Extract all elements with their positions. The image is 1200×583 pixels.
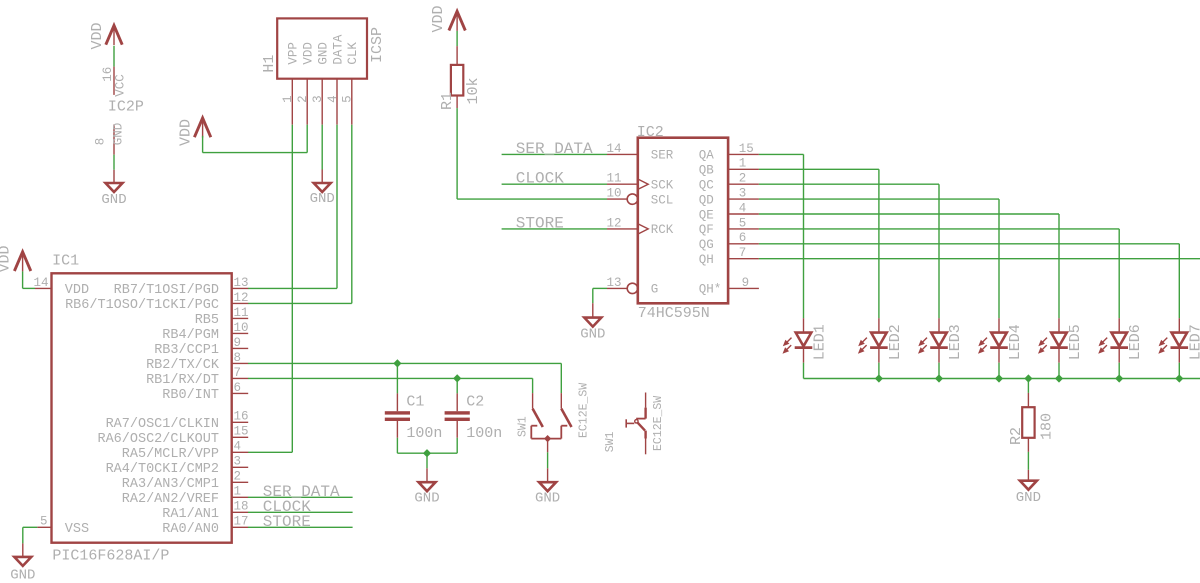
IC2 pin 10 stub bbox=[607, 198, 627, 200]
svg-text:STORE: STORE bbox=[263, 513, 311, 531]
wire bbox=[396, 438, 398, 453]
wire cathode bus bbox=[804, 378, 1200, 380]
LED2 anode stub bbox=[878, 318, 880, 332]
svg-text:RA4/T0CKI/CMP2: RA4/T0CKI/CMP2 bbox=[106, 462, 219, 477]
power symbol VDD (IC1 pin 14) bbox=[0, 245, 31, 272]
IC2 pin 13 inversion circle bbox=[627, 283, 637, 293]
wire bbox=[456, 378, 458, 393]
svg-text:GND: GND bbox=[310, 191, 335, 207]
svg-text:RB3/CCP1: RB3/CCP1 bbox=[154, 343, 219, 358]
IC1 pin 9 stub bbox=[232, 347, 249, 349]
svg-text:18: 18 bbox=[234, 500, 249, 514]
capacitor C2 stub bottom bbox=[456, 421, 458, 438]
junction bbox=[935, 374, 943, 382]
wire bbox=[1027, 452, 1029, 470]
svg-text:9: 9 bbox=[742, 276, 750, 290]
IC1 pin 17 stub bbox=[232, 526, 249, 528]
svg-text:6: 6 bbox=[739, 231, 747, 245]
svg-text:10k: 10k bbox=[465, 77, 482, 104]
wire RB1 to SW/C2 bbox=[248, 377, 533, 379]
svg-text:12: 12 bbox=[234, 291, 249, 305]
svg-text:1: 1 bbox=[281, 95, 295, 103]
wire QA vertical bbox=[803, 154, 805, 318]
svg-text:12: 12 bbox=[606, 216, 621, 230]
svg-text:3: 3 bbox=[311, 95, 325, 103]
LED LED6 bbox=[1098, 333, 1128, 354]
wire bbox=[321, 125, 323, 170]
resistor R1 stub top bbox=[456, 46, 458, 65]
svg-text:R1: R1 bbox=[439, 92, 456, 110]
svg-text:2: 2 bbox=[739, 172, 747, 186]
svg-text:R2: R2 bbox=[1008, 427, 1025, 445]
svg-text:VDD: VDD bbox=[178, 119, 195, 146]
wire QE vertical bbox=[1058, 214, 1060, 318]
svg-text:RB1/RX/DT: RB1/RX/DT bbox=[146, 373, 219, 388]
wire QC vertical bbox=[938, 184, 940, 318]
svg-text:180: 180 bbox=[1038, 413, 1055, 440]
IC2 pin 12 clock mark bbox=[638, 224, 648, 234]
svg-text:100n: 100n bbox=[466, 425, 502, 442]
svg-text:16: 16 bbox=[234, 410, 249, 424]
wire QC horizontal bbox=[759, 183, 939, 185]
svg-text:H1: H1 bbox=[261, 55, 278, 73]
junction bbox=[423, 449, 431, 457]
svg-text:PIC16F628AI/P: PIC16F628AI/P bbox=[52, 548, 169, 565]
wire STORE (IC2) bbox=[502, 228, 607, 230]
ground (IC2P) bbox=[101, 183, 126, 208]
svg-text:QD: QD bbox=[699, 193, 714, 207]
svg-text:7: 7 bbox=[739, 246, 747, 260]
wire bbox=[593, 287, 607, 289]
connector H1 body bbox=[277, 18, 367, 78]
svg-text:GND: GND bbox=[580, 326, 605, 342]
wire bbox=[1118, 363, 1120, 379]
svg-text:GND: GND bbox=[535, 490, 560, 506]
svg-text:8: 8 bbox=[234, 351, 242, 365]
IC1 pin 5 stub bbox=[37, 526, 51, 528]
wire bbox=[592, 303, 594, 317]
IC1 pin 6 stub bbox=[232, 392, 249, 394]
wire bbox=[396, 363, 398, 393]
IC2 pin 15 stub bbox=[728, 153, 759, 155]
IC2 pin 11 clock mark bbox=[638, 179, 648, 189]
svg-text:RB2/TX/CK: RB2/TX/CK bbox=[146, 358, 220, 373]
svg-text:2: 2 bbox=[234, 470, 242, 484]
svg-text:GND: GND bbox=[1016, 490, 1041, 506]
svg-text:3: 3 bbox=[739, 187, 747, 201]
wire bbox=[113, 155, 115, 170]
svg-text:LED3: LED3 bbox=[947, 324, 964, 360]
svg-text:EC12E_SW: EC12E_SW bbox=[652, 396, 665, 451]
junction bbox=[1024, 374, 1032, 382]
wire QG vertical bbox=[1178, 244, 1180, 318]
IC2P pin 8 GND stub bbox=[113, 125, 115, 155]
wire VPP horizontal bbox=[248, 451, 292, 453]
svg-text:VPP: VPP bbox=[287, 42, 301, 65]
LED3 cathode stub bbox=[938, 349, 940, 363]
svg-text:4: 4 bbox=[739, 201, 747, 215]
svg-text:RA5/MCLR/VPP: RA5/MCLR/VPP bbox=[122, 447, 219, 462]
wire bbox=[23, 287, 35, 289]
IC2 pin 4 stub bbox=[728, 213, 759, 215]
wire bbox=[397, 452, 457, 454]
svg-text:GND: GND bbox=[10, 568, 35, 583]
wire CLK horizontal bbox=[248, 302, 352, 304]
svg-text:GND: GND bbox=[101, 192, 126, 208]
svg-text:SER_DATA: SER_DATA bbox=[516, 140, 593, 158]
IC2 pin 11 stub bbox=[607, 183, 638, 185]
H1 pin 4 stub bbox=[336, 79, 338, 125]
wire bbox=[22, 527, 24, 543]
svg-text:VDD: VDD bbox=[302, 42, 316, 65]
svg-text:7: 7 bbox=[234, 366, 242, 380]
svg-text:SW1: SW1 bbox=[604, 431, 617, 452]
IC2 pin 1 stub bbox=[728, 168, 759, 170]
svg-text:RA1/AN1: RA1/AN1 bbox=[162, 507, 219, 522]
wire CLOCK (IC2) bbox=[502, 183, 607, 185]
capacitor C1 bbox=[385, 411, 410, 421]
svg-text:11: 11 bbox=[234, 306, 249, 320]
svg-text:VDD: VDD bbox=[65, 283, 89, 298]
wire bbox=[113, 46, 115, 67]
svg-text:GND: GND bbox=[414, 490, 439, 506]
svg-text:10: 10 bbox=[234, 321, 249, 335]
ground (H1 pin 3) bbox=[310, 183, 335, 207]
IC1 body bbox=[52, 273, 232, 542]
wire bbox=[547, 452, 549, 468]
wire bbox=[456, 438, 458, 453]
svg-text:C2: C2 bbox=[466, 394, 484, 411]
IC1 pin 18 stub bbox=[232, 511, 249, 513]
svg-text:STORE: STORE bbox=[516, 214, 564, 232]
wire bbox=[202, 136, 204, 153]
svg-text:VDD: VDD bbox=[89, 22, 106, 49]
IC1 pin 2 stub bbox=[232, 481, 249, 483]
IC2 pin 12 stub bbox=[607, 228, 638, 230]
svg-text:DATA: DATA bbox=[331, 34, 345, 65]
LED5 anode stub bbox=[1058, 318, 1060, 332]
wire QF vertical bbox=[1118, 229, 1120, 318]
LED1 cathode stub bbox=[803, 349, 805, 363]
IC2 pin 2 stub bbox=[728, 183, 759, 185]
IC1 pin 15 stub bbox=[232, 436, 249, 438]
svg-text:RB6/T1OSO/T1CKI/PGC: RB6/T1OSO/T1CKI/PGC bbox=[65, 298, 219, 313]
wire CLK vertical bbox=[351, 125, 353, 304]
resistor R2 stub top bbox=[1027, 393, 1029, 407]
svg-text:RCK: RCK bbox=[651, 223, 674, 237]
junction bbox=[544, 435, 551, 442]
svg-text:1: 1 bbox=[739, 157, 747, 171]
wire SER_DATA (IC1) bbox=[248, 496, 353, 498]
H1 pin 5 stub bbox=[351, 79, 353, 125]
LED6 cathode stub bbox=[1118, 349, 1120, 363]
svg-text:5: 5 bbox=[739, 216, 747, 230]
wire bbox=[803, 363, 805, 379]
svg-text:15: 15 bbox=[739, 142, 754, 156]
IC1 pin 8 stub bbox=[232, 362, 249, 364]
resistor R1 bbox=[451, 65, 463, 96]
svg-text:EC12E_SW: EC12E_SW bbox=[578, 383, 591, 438]
wire bbox=[22, 543, 24, 557]
svg-text:2: 2 bbox=[296, 95, 310, 103]
svg-text:6: 6 bbox=[234, 381, 242, 395]
svg-text:SW1: SW1 bbox=[517, 416, 530, 437]
junction bbox=[995, 374, 1003, 382]
IC1 pin 12 stub bbox=[232, 302, 249, 304]
ground (IC2 G) bbox=[580, 318, 605, 343]
wire bbox=[547, 468, 549, 482]
IC2P pin 16 VCC stub bbox=[113, 67, 115, 95]
svg-text:VCC: VCC bbox=[114, 74, 128, 97]
ground (R2) bbox=[1016, 481, 1041, 506]
resistor R1 stub bottom bbox=[456, 96, 458, 109]
IC2 pin 5 stub bbox=[728, 228, 759, 230]
svg-text:RA6/OSC2/CLKOUT: RA6/OSC2/CLKOUT bbox=[97, 432, 219, 447]
svg-text:14: 14 bbox=[606, 142, 621, 156]
IC1 pin 1 stub bbox=[232, 496, 249, 498]
wire QG horizontal bbox=[759, 243, 1179, 245]
svg-text:GND: GND bbox=[317, 42, 331, 65]
wire bbox=[113, 170, 115, 183]
wire bbox=[547, 439, 549, 453]
wire bbox=[998, 363, 1000, 379]
wire bbox=[22, 271, 24, 288]
svg-text:C1: C1 bbox=[406, 394, 424, 411]
wire QH to edge bbox=[759, 258, 1200, 260]
svg-text:QC: QC bbox=[699, 179, 714, 193]
wire VPP vertical bbox=[291, 125, 293, 453]
wire bbox=[457, 198, 607, 200]
IC1 pin 13 stub bbox=[232, 287, 249, 289]
junction bbox=[1115, 374, 1123, 382]
wire bbox=[1178, 363, 1180, 379]
svg-text:RB5: RB5 bbox=[195, 313, 219, 328]
wire bbox=[592, 288, 594, 303]
wire bbox=[1027, 470, 1029, 481]
svg-text:15: 15 bbox=[234, 425, 249, 439]
svg-text:LED2: LED2 bbox=[887, 324, 904, 360]
LED LED3 bbox=[918, 333, 948, 354]
wire bbox=[306, 125, 308, 153]
svg-text:QH: QH bbox=[699, 253, 714, 267]
svg-text:IC2: IC2 bbox=[637, 124, 664, 141]
IC2 pin 7 stub bbox=[728, 258, 759, 260]
IC1 pin 7 stub bbox=[232, 377, 249, 379]
svg-text:SER: SER bbox=[651, 149, 674, 163]
svg-text:LED7: LED7 bbox=[1187, 324, 1200, 360]
LED LED2 bbox=[858, 333, 888, 354]
resistor R2 stub bottom bbox=[1027, 438, 1029, 452]
ground (C1 C2) bbox=[414, 482, 439, 506]
capacitor C1 stub top bbox=[396, 393, 398, 411]
H1 pin 1 stub bbox=[291, 79, 293, 125]
IC1 pin 11 stub bbox=[232, 317, 249, 319]
svg-text:RA2/AN2/VREF: RA2/AN2/VREF bbox=[122, 492, 219, 507]
svg-text:RB7/T1OSI/PGD: RB7/T1OSI/PGD bbox=[114, 283, 219, 298]
svg-text:QH*: QH* bbox=[699, 283, 722, 297]
wire DATA vertical bbox=[336, 125, 338, 289]
svg-text:100n: 100n bbox=[406, 425, 442, 442]
IC2 pin 6 stub bbox=[728, 243, 759, 245]
svg-text:VDD: VDD bbox=[430, 5, 447, 32]
LED LED1 bbox=[783, 333, 813, 354]
IC2 pin 9 stub bbox=[728, 287, 759, 289]
wire QF horizontal bbox=[759, 228, 1119, 230]
svg-text:11: 11 bbox=[606, 172, 621, 186]
wire DATA horizontal bbox=[248, 287, 337, 289]
IC1 pin 10 stub bbox=[232, 332, 249, 334]
svg-text:LED4: LED4 bbox=[1007, 324, 1024, 360]
switch SW1 pole B bbox=[626, 393, 645, 455]
svg-text:IC1: IC1 bbox=[52, 253, 79, 270]
switch SW1 pole A bbox=[531, 393, 571, 439]
power symbol VDD (H1) bbox=[178, 118, 211, 146]
wire bbox=[23, 526, 38, 528]
LED7 anode stub bbox=[1178, 318, 1180, 332]
IC2 pin 13 stub bbox=[607, 287, 627, 289]
svg-text:5: 5 bbox=[40, 515, 48, 529]
svg-text:14: 14 bbox=[33, 276, 48, 290]
wire bbox=[203, 152, 308, 154]
svg-text:9: 9 bbox=[234, 336, 242, 350]
svg-text:ICSP: ICSP bbox=[369, 27, 386, 63]
svg-text:VDD: VDD bbox=[0, 245, 14, 272]
svg-text:QG: QG bbox=[699, 238, 714, 252]
LED LED4 bbox=[978, 333, 1008, 354]
wire CLOCK (IC1) bbox=[248, 511, 353, 513]
LED3 anode stub bbox=[938, 318, 940, 332]
wire QE horizontal bbox=[759, 213, 1059, 215]
ground (SW1) bbox=[535, 482, 560, 506]
svg-text:74HC595N: 74HC595N bbox=[638, 305, 710, 322]
wire bbox=[426, 453, 428, 468]
wire bbox=[938, 363, 940, 379]
wire bbox=[1027, 379, 1029, 393]
junction bbox=[393, 359, 401, 367]
svg-text:CLOCK: CLOCK bbox=[516, 170, 564, 188]
wire QB vertical bbox=[878, 169, 880, 318]
wire RB2 to SW/C1 bbox=[248, 362, 561, 364]
IC1 pin 4 stub bbox=[232, 451, 249, 453]
svg-text:VSS: VSS bbox=[65, 522, 89, 537]
LED5 cathode stub bbox=[1058, 349, 1060, 363]
svg-text:GND: GND bbox=[112, 123, 126, 146]
LED6 anode stub bbox=[1118, 318, 1120, 332]
svg-text:RA0/AN0: RA0/AN0 bbox=[162, 522, 219, 537]
svg-text:SCK: SCK bbox=[651, 179, 674, 193]
svg-text:LED1: LED1 bbox=[812, 324, 829, 360]
wire QD horizontal bbox=[759, 198, 999, 200]
svg-text:10: 10 bbox=[606, 187, 621, 201]
junction bbox=[453, 374, 461, 382]
wire SER_DATA (IC2) bbox=[502, 153, 607, 155]
svg-text:4: 4 bbox=[234, 440, 242, 454]
capacitor C1 stub bottom bbox=[396, 421, 398, 438]
power symbol VDD (R1) bbox=[430, 5, 466, 32]
wire bbox=[321, 170, 323, 184]
svg-text:RB0/INT: RB0/INT bbox=[162, 388, 219, 403]
IC1 pin 16 stub bbox=[232, 421, 249, 423]
wire bbox=[456, 108, 458, 199]
svg-text:13: 13 bbox=[606, 276, 621, 290]
svg-text:SCL: SCL bbox=[651, 193, 674, 207]
IC2 body bbox=[638, 138, 728, 304]
wire bbox=[426, 468, 428, 482]
capacitor C2 bbox=[445, 411, 470, 421]
IC2 pin 3 stub bbox=[728, 198, 759, 200]
ground (IC1 VSS) bbox=[10, 557, 35, 583]
svg-text:8: 8 bbox=[94, 138, 108, 146]
svg-text:QA: QA bbox=[699, 149, 715, 163]
wire STORE (IC1) bbox=[248, 526, 353, 528]
wire bbox=[560, 363, 562, 393]
svg-text:IC2P: IC2P bbox=[108, 98, 144, 115]
power symbol VDD (IC2P pin 16) bbox=[89, 22, 122, 49]
svg-text:RA3/AN3/CMP1: RA3/AN3/CMP1 bbox=[122, 477, 219, 492]
junction bbox=[1175, 374, 1183, 382]
wire QB horizontal bbox=[759, 168, 879, 170]
svg-text:13: 13 bbox=[234, 276, 249, 290]
junction bbox=[875, 374, 883, 382]
junction bbox=[1055, 374, 1063, 382]
svg-text:3: 3 bbox=[234, 455, 242, 469]
wire bbox=[532, 378, 534, 393]
wire bbox=[456, 31, 458, 46]
H1 pin 3 stub bbox=[321, 79, 323, 125]
LED1 anode stub bbox=[803, 318, 805, 332]
LED4 cathode stub bbox=[998, 349, 1000, 363]
svg-text:RB4/PGM: RB4/PGM bbox=[162, 328, 219, 343]
svg-text:LED6: LED6 bbox=[1127, 324, 1144, 360]
svg-text:QB: QB bbox=[699, 164, 715, 178]
svg-text:5: 5 bbox=[341, 95, 355, 103]
svg-text:G: G bbox=[651, 283, 659, 297]
svg-text:QF: QF bbox=[699, 223, 714, 237]
svg-text:1: 1 bbox=[234, 485, 242, 499]
LED LED7 bbox=[1158, 333, 1188, 354]
svg-text:LED5: LED5 bbox=[1067, 324, 1084, 360]
svg-text:QE: QE bbox=[699, 208, 714, 222]
wire QD vertical bbox=[998, 199, 1000, 318]
svg-text:17: 17 bbox=[234, 515, 249, 529]
H1 pin 2 stub bbox=[306, 79, 308, 125]
svg-text:RA7/OSC1/CLKIN: RA7/OSC1/CLKIN bbox=[106, 417, 219, 432]
LED4 anode stub bbox=[998, 318, 1000, 332]
LED7 cathode stub bbox=[1178, 349, 1180, 363]
svg-text:CLK: CLK bbox=[346, 42, 360, 65]
wire bbox=[878, 363, 880, 379]
LED2 cathode stub bbox=[878, 349, 880, 363]
resistor R2 bbox=[1022, 407, 1034, 438]
svg-text:4: 4 bbox=[326, 95, 340, 103]
IC1 pin 14 stub bbox=[35, 287, 52, 289]
IC2 pin 10 inversion circle bbox=[627, 194, 637, 204]
IC1 pin 3 stub bbox=[232, 466, 249, 468]
wire bbox=[1058, 363, 1060, 379]
capacitor C2 stub top bbox=[456, 393, 458, 411]
wire QA horizontal bbox=[759, 153, 804, 155]
IC2 pin 14 stub bbox=[607, 153, 638, 155]
LED LED5 bbox=[1038, 333, 1068, 354]
